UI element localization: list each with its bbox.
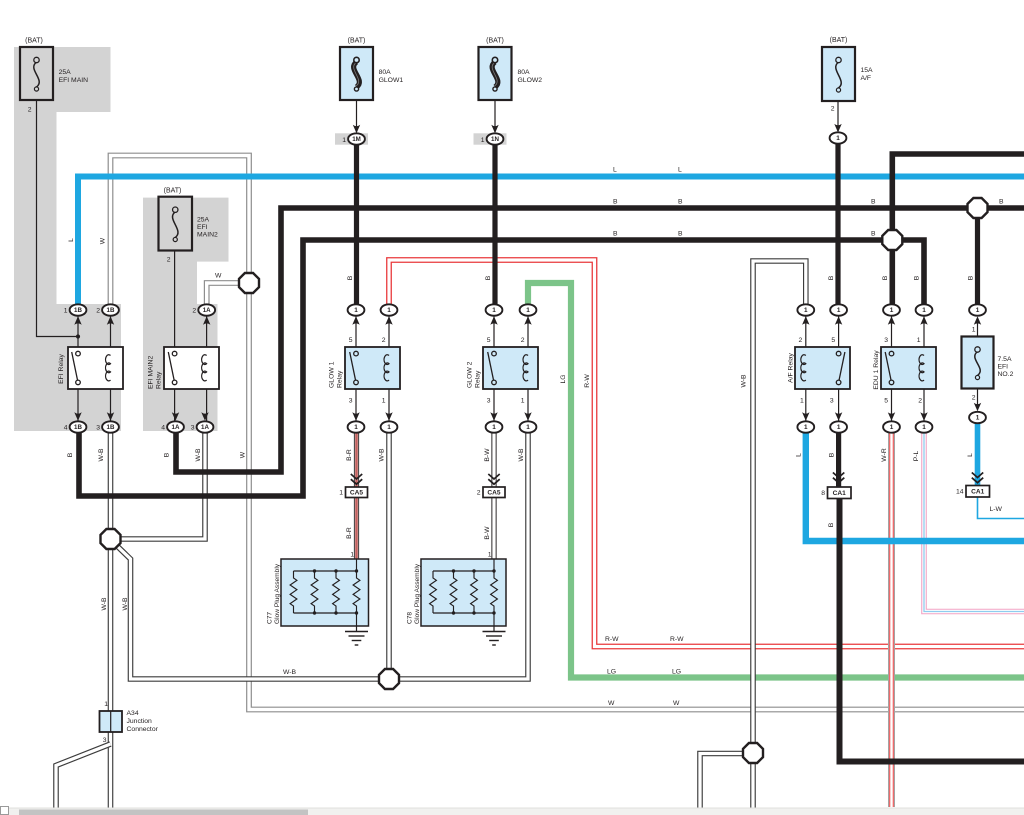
svg-text:R-W: R-W bbox=[584, 374, 591, 388]
svg-text:B: B bbox=[678, 198, 683, 205]
svg-text:B: B bbox=[828, 452, 835, 457]
wire W-B: GLOW1 relay pin1 down to junction bbox=[386, 433, 392, 679]
svg-text:Relay: Relay bbox=[475, 370, 482, 388]
svg-text:3: 3 bbox=[349, 398, 353, 405]
wire L: A/F relay pin1 down and right to edge bbox=[806, 433, 1024, 541]
svg-text:CA1: CA1 bbox=[971, 489, 985, 496]
double-chevron into CA5 #2 bbox=[488, 474, 499, 479]
svg-text:1: 1 bbox=[972, 327, 976, 334]
scrollbar track bbox=[0, 808, 1024, 815]
svg-text:L: L bbox=[967, 453, 974, 457]
svg-text:L: L bbox=[678, 166, 682, 173]
junction (octagon) on W-B net below glow plug assemblies bbox=[379, 669, 399, 689]
svg-text:1: 1 bbox=[354, 424, 358, 431]
glow plug assembly C78 bbox=[421, 559, 506, 626]
wire B: top-right feed with drop to EDU1 relay pin3 bbox=[892, 154, 1024, 315]
wire B: below connector 8 CA1 down and right to edge bbox=[840, 498, 1024, 762]
svg-text:L: L bbox=[613, 166, 617, 173]
wire B: EFI relay pin4 (1B) to lower B bus across to EDU1 relay pin1 bbox=[79, 240, 924, 496]
svg-text:3: 3 bbox=[487, 398, 491, 405]
wire B: GLOW1 fusible link feed from 1M to GLOW1 relay pin5 bbox=[354, 144, 359, 315]
svg-text:3: 3 bbox=[830, 398, 834, 405]
svg-text:1: 1 bbox=[837, 424, 841, 431]
svg-text:Glow Plug Assembly: Glow Plug Assembly bbox=[414, 563, 421, 624]
svg-text:1: 1 bbox=[354, 307, 358, 314]
svg-text:1: 1 bbox=[837, 307, 841, 314]
svg-text:25A: 25A bbox=[197, 216, 210, 223]
svg-text:B-R: B-R bbox=[346, 449, 353, 461]
svg-text:Relay: Relay bbox=[156, 371, 163, 389]
svg-text:1: 1 bbox=[800, 398, 804, 405]
wire B: B bus junction drop to 7.5A EFI NO.2 fuse pin1 bbox=[975, 208, 980, 315]
svg-text:80A: 80A bbox=[379, 69, 392, 76]
svg-text:W: W bbox=[215, 273, 222, 280]
svg-text:4: 4 bbox=[64, 425, 68, 432]
wire L-W: from connector 14 CA1 down and right to edge bbox=[978, 497, 1024, 519]
svg-text:1: 1 bbox=[488, 552, 492, 559]
svg-text:B: B bbox=[882, 275, 889, 280]
svg-text:15A: 15A bbox=[861, 67, 874, 74]
wire W net: from connector 2-1B up over loop, through junction to bottom W bus bbox=[111, 156, 1024, 710]
svg-text:B: B bbox=[613, 198, 618, 205]
wire: A/F fuse lead to connector bbox=[837, 101, 839, 131]
svg-text:1A: 1A bbox=[203, 307, 211, 314]
svg-text:LG: LG bbox=[672, 669, 681, 676]
svg-text:80A: 80A bbox=[518, 69, 531, 76]
wire: EDU1 relay leads bbox=[891, 316, 893, 352]
relay: EFI Relay bbox=[68, 347, 123, 389]
wire B: EFI MAIN2 relay pin4 (1A) to upper B bus bbox=[176, 208, 1024, 472]
double-chevron into CA1 pin8 bbox=[833, 473, 844, 478]
fuse 25A EFI MAIN2 bbox=[159, 197, 193, 251]
svg-text:B: B bbox=[163, 452, 170, 457]
ground below C77 bbox=[356, 626, 358, 632]
svg-text:25A: 25A bbox=[59, 69, 72, 76]
svg-text:W-B: W-B bbox=[98, 448, 105, 462]
svg-text:1: 1 bbox=[521, 398, 525, 405]
svg-text:3: 3 bbox=[191, 425, 195, 432]
svg-text:W-B: W-B bbox=[518, 448, 525, 462]
svg-text:4: 4 bbox=[161, 425, 165, 432]
fuse 7.5A EFI NO.2 bbox=[962, 337, 994, 389]
svg-text:W: W bbox=[608, 700, 615, 707]
svg-text:7.5A: 7.5A bbox=[998, 356, 1012, 363]
svg-text:1: 1 bbox=[350, 552, 354, 559]
svg-text:B: B bbox=[828, 522, 835, 527]
connector 1N bbox=[487, 133, 504, 144]
wire: EFI MAIN2 fuse pin2 lead to relay switch bbox=[174, 251, 176, 352]
svg-text:8: 8 bbox=[821, 490, 825, 497]
wire B-R: GLOW1 relay pin3 to CA5 to C77 glow plug assembly bbox=[354, 433, 359, 559]
junction (octagon) on W-B net left bbox=[101, 529, 121, 549]
wire R-W: GLOW1 relay pin2 up, across, down and right to edge bbox=[389, 260, 1024, 647]
connector below 7.5A fuse bbox=[969, 412, 986, 423]
arrows into lower connector row bbox=[74, 412, 81, 421]
scrollbar corner box bbox=[1, 807, 9, 815]
relay: EFI MAIN2 Relay bbox=[164, 347, 219, 389]
svg-text:B: B bbox=[871, 230, 876, 237]
svg-text:1: 1 bbox=[526, 307, 530, 314]
connector row below relays bbox=[348, 421, 365, 432]
svg-text:2: 2 bbox=[521, 337, 525, 344]
glow plug assembly C77 bbox=[281, 559, 369, 626]
svg-text:2: 2 bbox=[382, 337, 386, 344]
svg-text:C78: C78 bbox=[407, 612, 414, 624]
svg-text:2: 2 bbox=[477, 490, 481, 497]
svg-text:Connector: Connector bbox=[127, 726, 159, 733]
wire B: A/F relay pin3 to connector 8 CA1 bbox=[836, 433, 841, 487]
arrow into connector 1N bbox=[491, 125, 498, 134]
svg-text:1: 1 bbox=[526, 424, 530, 431]
svg-text:(BAT): (BAT) bbox=[25, 38, 43, 45]
svg-text:2: 2 bbox=[96, 308, 100, 315]
wire L: 7.5A EFI NO.2 fuse pin2 to connector 14 CA1 bbox=[975, 423, 981, 487]
svg-text:W-B: W-B bbox=[283, 669, 297, 676]
wire: EFI MAIN2 relay leads bbox=[206, 316, 208, 356]
svg-text:(BAT): (BAT) bbox=[830, 37, 848, 44]
svg-text:1B: 1B bbox=[107, 307, 115, 314]
fusible link 80A GLOW1 bbox=[340, 47, 373, 100]
svg-text:(BAT): (BAT) bbox=[348, 38, 366, 45]
connector 1 (1B) above EFI relay bbox=[70, 304, 87, 315]
svg-text:1: 1 bbox=[890, 424, 894, 431]
svg-text:1N: 1N bbox=[491, 136, 499, 143]
shaded harness region (EFI MAIN fuse / EFI relays) bbox=[14, 47, 121, 431]
connector CA5 pin2 bbox=[483, 487, 505, 498]
svg-text:1: 1 bbox=[492, 307, 496, 314]
svg-text:W-B: W-B bbox=[101, 597, 108, 611]
wire B-W: GLOW2 relay pin3 to CA5 to C78 glow plug assembly bbox=[491, 433, 496, 559]
svg-text:1B: 1B bbox=[74, 307, 82, 314]
svg-text:1: 1 bbox=[387, 424, 391, 431]
wire W-B: A/F relay pin2 loop left and down through junction to bottom edge bbox=[753, 261, 806, 810]
relay: GLOW 1 Relay bbox=[345, 347, 400, 389]
wire W-B: branch below A34 junction connector to bottom edge bbox=[56, 744, 111, 810]
svg-text:1: 1 bbox=[481, 137, 485, 144]
A34 junction connector bbox=[100, 711, 123, 732]
relay: GLOW 2 Relay bbox=[483, 347, 538, 389]
connector row above relays bbox=[348, 304, 365, 315]
svg-text:1: 1 bbox=[804, 307, 808, 314]
connector below A/F fuse bbox=[830, 132, 847, 143]
double-chevron into CA5 #1 bbox=[351, 474, 362, 479]
wire: 7.5A fuse leads bbox=[977, 319, 979, 337]
junction dot on EFI relay pin1 wire bbox=[76, 334, 80, 338]
svg-text:14: 14 bbox=[956, 489, 964, 496]
svg-text:1: 1 bbox=[922, 424, 926, 431]
svg-text:W-B: W-B bbox=[195, 448, 202, 462]
svg-text:1B: 1B bbox=[74, 424, 82, 431]
svg-text:2: 2 bbox=[831, 106, 835, 113]
wire W-B: junction diagonal branch down to bottom W-B bus and up to GLOW2 relay pin1 bbox=[115, 433, 529, 679]
fusible link 80A GLOW2 bbox=[479, 47, 512, 100]
svg-text:2: 2 bbox=[28, 107, 32, 114]
svg-text:CA1: CA1 bbox=[833, 490, 847, 497]
svg-text:1: 1 bbox=[342, 137, 346, 144]
svg-text:1B: 1B bbox=[107, 424, 115, 431]
svg-text:1: 1 bbox=[339, 490, 343, 497]
junction (octagon) on B bus 1 bbox=[968, 198, 988, 218]
wire: EFI relay switch leads bbox=[77, 316, 79, 352]
svg-text:3: 3 bbox=[103, 737, 107, 744]
svg-text:A/F: A/F bbox=[861, 75, 872, 82]
svg-text:1: 1 bbox=[382, 398, 386, 405]
svg-text:CA5: CA5 bbox=[487, 490, 501, 497]
svg-text:B: B bbox=[485, 275, 492, 280]
connector CA1 pin8 bbox=[828, 487, 852, 499]
svg-text:B-W: B-W bbox=[484, 526, 491, 540]
wire L bus: main horizontal L wire with drop to EFI relay pin1 bbox=[78, 177, 1024, 306]
svg-text:1: 1 bbox=[917, 337, 921, 344]
relay: A/F Relay bbox=[795, 347, 850, 389]
svg-text:B: B bbox=[828, 275, 835, 280]
wire W-B: EFI MAIN2 relay pin3 (1A) down and left to junction bbox=[112, 433, 205, 539]
double-chevron into CA1 pin14 bbox=[972, 473, 983, 478]
svg-text:2: 2 bbox=[167, 257, 171, 264]
wire: GLOW1 relay leads bbox=[355, 316, 357, 352]
svg-text:1: 1 bbox=[387, 307, 391, 314]
connector 2 (1A) above EFI MAIN2 relay bbox=[198, 304, 215, 315]
arrow into connector 1M bbox=[353, 125, 360, 134]
fuse 15A A/F bbox=[822, 47, 855, 101]
svg-text:L: L bbox=[68, 238, 75, 242]
svg-text:W-B: W-B bbox=[122, 597, 129, 611]
svg-text:GLOW1: GLOW1 bbox=[379, 77, 404, 84]
shaded harness region (EFI MAIN2 fuse / relay) bbox=[143, 198, 229, 431]
svg-text:B: B bbox=[678, 230, 683, 237]
svg-text:B: B bbox=[999, 198, 1004, 205]
svg-text:B: B bbox=[871, 198, 876, 205]
svg-text:LG: LG bbox=[560, 374, 567, 383]
gray highlight behind connector 1N label bbox=[474, 133, 507, 144]
svg-text:GLOW 2: GLOW 2 bbox=[467, 361, 474, 388]
connector 1M bbox=[348, 133, 365, 144]
arrows into upper connector row bbox=[74, 316, 81, 325]
svg-text:GLOW2: GLOW2 bbox=[518, 77, 543, 84]
svg-text:1M: 1M bbox=[352, 136, 361, 143]
svg-text:B: B bbox=[347, 275, 354, 280]
svg-text:5: 5 bbox=[487, 337, 491, 344]
svg-text:1: 1 bbox=[104, 701, 108, 708]
svg-text:B-W: B-W bbox=[484, 448, 491, 462]
svg-text:1: 1 bbox=[976, 307, 980, 314]
wire: GLOW2 fusible link lead to connector 1N bbox=[494, 100, 496, 132]
svg-text:Glow Plug Assembly: Glow Plug Assembly bbox=[274, 563, 281, 624]
svg-text:B: B bbox=[913, 275, 920, 280]
svg-text:W-B: W-B bbox=[740, 374, 747, 388]
svg-text:1A: 1A bbox=[172, 424, 180, 431]
svg-text:(BAT): (BAT) bbox=[164, 188, 182, 195]
svg-text:CA5: CA5 bbox=[350, 490, 364, 497]
svg-text:1A: 1A bbox=[201, 424, 209, 431]
svg-text:3: 3 bbox=[96, 425, 100, 432]
svg-text:W-B: W-B bbox=[378, 448, 385, 462]
svg-text:EFI: EFI bbox=[197, 224, 208, 231]
svg-text:5: 5 bbox=[884, 398, 888, 405]
svg-text:EFI Relay: EFI Relay bbox=[58, 353, 65, 383]
wire W-R: EDU relay pin5 down to bottom edge bbox=[888, 433, 895, 807]
relay: EDU 1 Relay bbox=[881, 347, 936, 389]
svg-text:1: 1 bbox=[976, 415, 980, 422]
svg-text:W: W bbox=[239, 451, 246, 458]
wire B: GLOW2 fusible link feed from 1N to GLOW2 relay pin5 bbox=[492, 144, 497, 315]
connector CA5 pin1 bbox=[346, 487, 368, 498]
connector 3 (1A) bbox=[197, 421, 214, 432]
svg-text:1: 1 bbox=[836, 135, 840, 142]
svg-text:LG: LG bbox=[607, 669, 616, 676]
svg-text:2: 2 bbox=[972, 395, 976, 402]
svg-text:2: 2 bbox=[918, 398, 922, 405]
svg-text:EDU 1 Relay: EDU 1 Relay bbox=[873, 350, 880, 390]
svg-text:1: 1 bbox=[492, 424, 496, 431]
svg-text:P-L: P-L bbox=[913, 450, 920, 461]
svg-text:B: B bbox=[967, 275, 974, 280]
svg-text:L: L bbox=[795, 453, 802, 457]
svg-text:1: 1 bbox=[890, 307, 894, 314]
connector 3 (1B) bbox=[102, 421, 119, 432]
svg-text:W: W bbox=[99, 237, 106, 244]
fuse 25A EFI MAIN bbox=[20, 47, 53, 100]
wire: GLOW1 fusible link lead to connector 1M bbox=[356, 100, 358, 132]
svg-text:1: 1 bbox=[922, 307, 926, 314]
svg-text:EFI MAIN2: EFI MAIN2 bbox=[148, 356, 155, 389]
svg-text:C77: C77 bbox=[267, 612, 274, 624]
svg-text:5: 5 bbox=[831, 337, 835, 344]
svg-text:1: 1 bbox=[64, 308, 68, 315]
svg-text:W: W bbox=[673, 700, 680, 707]
wire P-L: EDU relay pin2 down and right to edge bbox=[924, 433, 1024, 612]
svg-text:B-R: B-R bbox=[346, 527, 353, 539]
svg-text:B: B bbox=[67, 452, 74, 457]
arrow into A/F fuse connector bbox=[834, 124, 841, 133]
svg-text:A34: A34 bbox=[127, 710, 139, 717]
connector CA1 pin14 bbox=[966, 486, 990, 498]
arrow into 7.5A fuse lower connector bbox=[974, 403, 981, 412]
connector 2 (1B) above EFI relay bbox=[102, 304, 119, 315]
junction (octagon) on B bus 2 bbox=[882, 230, 902, 250]
connector 4 (1A) bbox=[167, 421, 184, 432]
junction (octagon) on W net near EFI MAIN2 bbox=[239, 273, 259, 293]
svg-text:B: B bbox=[613, 230, 618, 237]
wire W-B: branch from lower junction to bottom edge bbox=[700, 754, 746, 811]
svg-text:R-W: R-W bbox=[670, 636, 684, 643]
svg-text:Relay: Relay bbox=[337, 370, 344, 388]
wire: GLOW2 relay leads bbox=[493, 316, 495, 352]
svg-text:GLOW 1: GLOW 1 bbox=[329, 361, 336, 388]
svg-text:A/F Relay: A/F Relay bbox=[787, 352, 794, 382]
svg-text:1: 1 bbox=[804, 424, 808, 431]
svg-text:L-W: L-W bbox=[990, 506, 1003, 513]
svg-text:3: 3 bbox=[884, 337, 888, 344]
svg-text:MAIN2: MAIN2 bbox=[197, 231, 218, 238]
svg-text:(BAT): (BAT) bbox=[486, 38, 504, 45]
gray highlight behind connector 1M label bbox=[335, 133, 368, 144]
wire: EFI relay coil leads bbox=[110, 316, 112, 356]
junction (octagon) on W-B net lower right bbox=[743, 743, 763, 763]
wire: A/F relay leads bbox=[805, 316, 807, 356]
wire B: A/F fuse feed to A/F relay pin5 bbox=[835, 143, 840, 315]
svg-text:NO.2: NO.2 bbox=[998, 371, 1014, 378]
connector 4 (1B) bbox=[70, 421, 87, 432]
wire: EFI MAIN fuse pin2 lead down to EFI relay pin1 node bbox=[37, 100, 78, 337]
svg-text:EFI MAIN: EFI MAIN bbox=[59, 77, 89, 84]
wire W branch: connector 2-1A to W junction bbox=[207, 283, 249, 305]
svg-text:2: 2 bbox=[799, 337, 803, 344]
svg-text:5: 5 bbox=[349, 337, 353, 344]
scrollbar thumb bbox=[19, 810, 308, 815]
wire W-B: EFI relay pin3 (1B) down through junction to A34 junction connector and bottom bbox=[108, 433, 114, 810]
svg-text:2: 2 bbox=[192, 308, 196, 315]
wire LG: GLOW2 relay pin2 up, across, down and right to edge bbox=[528, 283, 1024, 678]
svg-text:Junction: Junction bbox=[127, 718, 153, 725]
svg-text:EFI: EFI bbox=[998, 364, 1009, 371]
ground below C78 bbox=[493, 626, 495, 632]
svg-text:W-R: W-R bbox=[881, 448, 888, 462]
svg-text:R-W: R-W bbox=[605, 636, 619, 643]
